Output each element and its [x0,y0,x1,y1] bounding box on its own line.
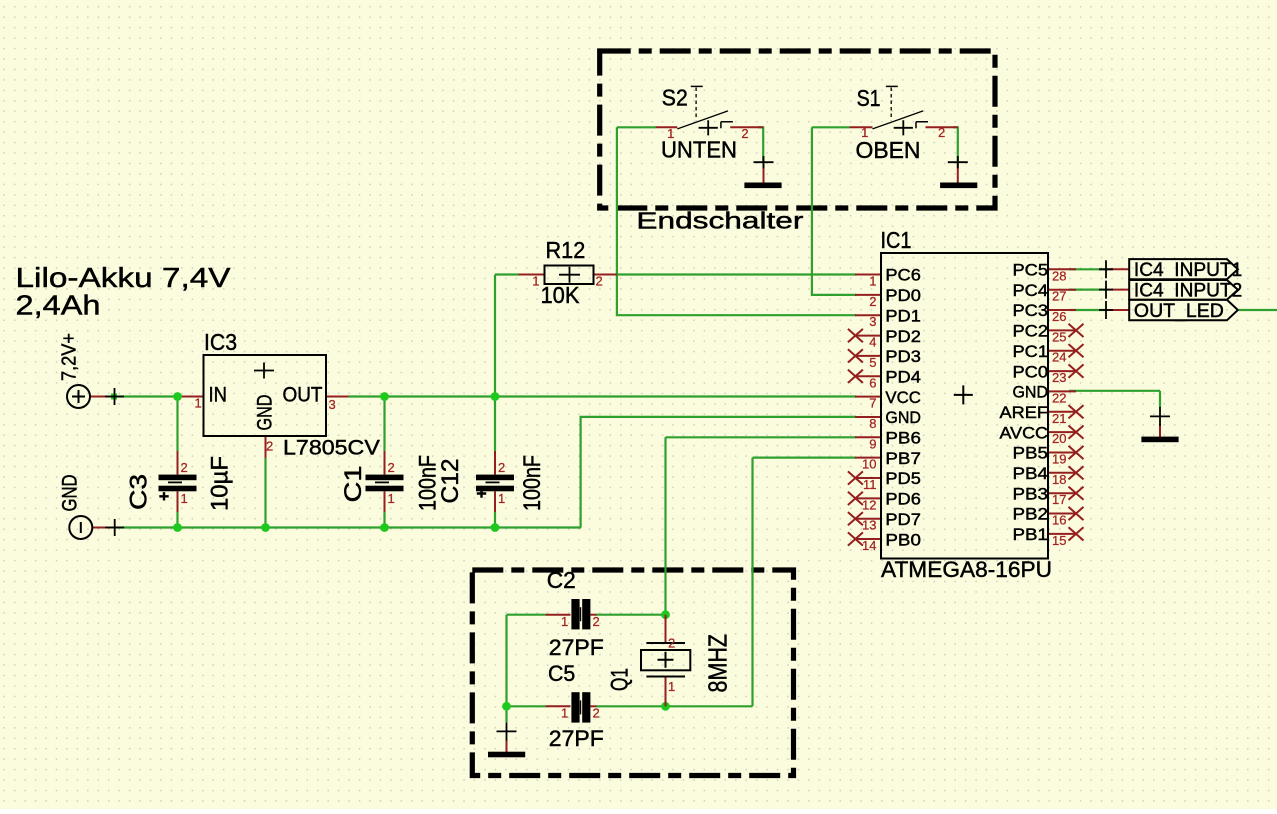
svg-text:PD4: PD4 [885,367,921,386]
svg-text:PC3: PC3 [1013,301,1049,320]
svg-text:2: 2 [596,274,603,289]
svg-text:IC4_INPUT1: IC4_INPUT1 [1134,259,1242,281]
svg-text:7: 7 [869,396,876,411]
svg-text:C3: C3 [126,474,153,510]
svg-text:VCC: VCC [885,388,921,407]
svg-text:PC2: PC2 [1013,322,1049,341]
svg-text:PD7: PD7 [885,510,921,529]
svg-text:8MHZ: 8MHZ [703,634,733,693]
svg-text:2: 2 [869,294,876,309]
svg-text:2: 2 [593,614,600,629]
svg-text:28: 28 [1052,268,1066,283]
svg-text:14: 14 [862,538,876,553]
svg-text:OUT: OUT [283,384,323,407]
svg-text:1: 1 [561,614,568,629]
svg-text:S1: S1 [857,85,881,111]
svg-text:GND: GND [254,395,277,431]
svg-text:PB3: PB3 [1013,484,1049,503]
svg-text:PD2: PD2 [885,327,921,346]
svg-text:12: 12 [862,497,876,512]
svg-text:PC1: PC1 [1013,342,1049,361]
svg-text:PD6: PD6 [885,490,921,509]
svg-text:S2: S2 [662,84,688,110]
svg-text:1: 1 [532,274,539,289]
svg-text:17: 17 [1052,492,1066,507]
svg-text:PC0: PC0 [1013,362,1049,381]
svg-text:PB2: PB2 [1013,505,1049,524]
svg-text:PB7: PB7 [885,449,921,468]
svg-text:9: 9 [869,436,876,451]
svg-text:19: 19 [1052,451,1066,466]
svg-text:2: 2 [593,706,600,721]
svg-text:2: 2 [266,439,273,454]
svg-text:GND: GND [1013,383,1049,402]
svg-text:PD3: PD3 [885,347,921,366]
svg-text:OBEN: OBEN [856,137,921,163]
svg-text:2: 2 [668,636,675,651]
svg-text:18: 18 [1052,472,1066,487]
svg-text:100nF: 100nF [519,455,546,511]
svg-text:3: 3 [869,314,876,329]
svg-text:1: 1 [561,706,568,721]
svg-text:2: 2 [181,460,188,475]
svg-text:26: 26 [1052,309,1066,324]
svg-text:IC4_INPUT2: IC4_INPUT2 [1134,280,1242,302]
svg-text:R12: R12 [546,237,586,263]
svg-text:10: 10 [862,457,876,472]
svg-text:IC1: IC1 [881,227,912,253]
svg-text:3: 3 [329,397,336,412]
svg-text:24: 24 [1052,350,1066,365]
svg-text:1: 1 [667,126,674,141]
svg-text:16: 16 [1052,513,1066,528]
svg-text:13: 13 [862,518,876,533]
svg-text:25: 25 [1052,329,1066,344]
svg-text:OUT_LED: OUT_LED [1134,300,1224,322]
svg-text:1: 1 [388,491,395,506]
svg-text:PB4: PB4 [1013,464,1049,483]
svg-text:PC6: PC6 [885,266,921,285]
svg-text:AREF: AREF [1000,403,1049,422]
svg-text:27PF: 27PF [549,635,604,660]
svg-text:10µF: 10µF [207,456,234,511]
svg-text:27: 27 [1052,289,1066,304]
svg-text:GND: GND [58,475,81,512]
svg-text:21: 21 [1052,411,1066,426]
svg-text:AVCC: AVCC [1000,423,1049,442]
svg-text:Endschalter: Endschalter [636,208,803,234]
svg-text:C1: C1 [340,466,367,503]
svg-text:2: 2 [388,460,395,475]
svg-text:1: 1 [181,491,188,506]
svg-text:1: 1 [498,491,505,506]
svg-text:C5: C5 [548,661,575,686]
svg-text:2: 2 [938,125,945,140]
svg-text:L7805CV: L7805CV [283,436,381,460]
svg-text:5: 5 [869,355,876,370]
svg-text:22: 22 [1052,390,1066,405]
svg-text:PC5: PC5 [1013,261,1049,280]
svg-text:20: 20 [1052,431,1066,446]
svg-text:PD1: PD1 [885,306,921,325]
svg-text:IN: IN [209,384,228,407]
svg-text:2: 2 [741,126,748,141]
svg-text:PC4: PC4 [1013,281,1049,300]
svg-text:2: 2 [498,460,505,475]
svg-text:8: 8 [869,416,876,431]
svg-text:C2: C2 [547,567,576,593]
svg-text:Q1: Q1 [607,668,634,691]
svg-text:2,4Ah: 2,4Ah [16,290,101,321]
svg-text:1: 1 [668,679,675,694]
svg-text:10K: 10K [541,282,581,308]
svg-text:1: 1 [861,125,868,140]
svg-text:PD0: PD0 [885,286,921,305]
svg-text:15: 15 [1052,533,1066,548]
svg-text:1: 1 [195,396,202,411]
svg-text:Lilo-Akku 7,4V: Lilo-Akku 7,4V [16,262,231,293]
svg-text:IC3: IC3 [204,329,237,355]
svg-text:PB1: PB1 [1013,525,1049,544]
svg-text:C12: C12 [437,459,464,504]
svg-text:6: 6 [869,375,876,390]
svg-text:11: 11 [863,477,877,492]
svg-text:PD5: PD5 [885,469,921,488]
svg-text:1: 1 [869,274,876,289]
svg-text:PB0: PB0 [885,530,921,549]
svg-text:GND: GND [885,408,921,427]
svg-text:4: 4 [869,335,876,350]
svg-text:PB6: PB6 [885,429,921,448]
svg-text:PB5: PB5 [1013,444,1049,463]
svg-text:23: 23 [1052,370,1066,385]
svg-text:27PF: 27PF [549,726,604,751]
svg-text:ATMEGA8-16PU: ATMEGA8-16PU [881,557,1052,582]
svg-text:7,2V+: 7,2V+ [58,333,81,381]
